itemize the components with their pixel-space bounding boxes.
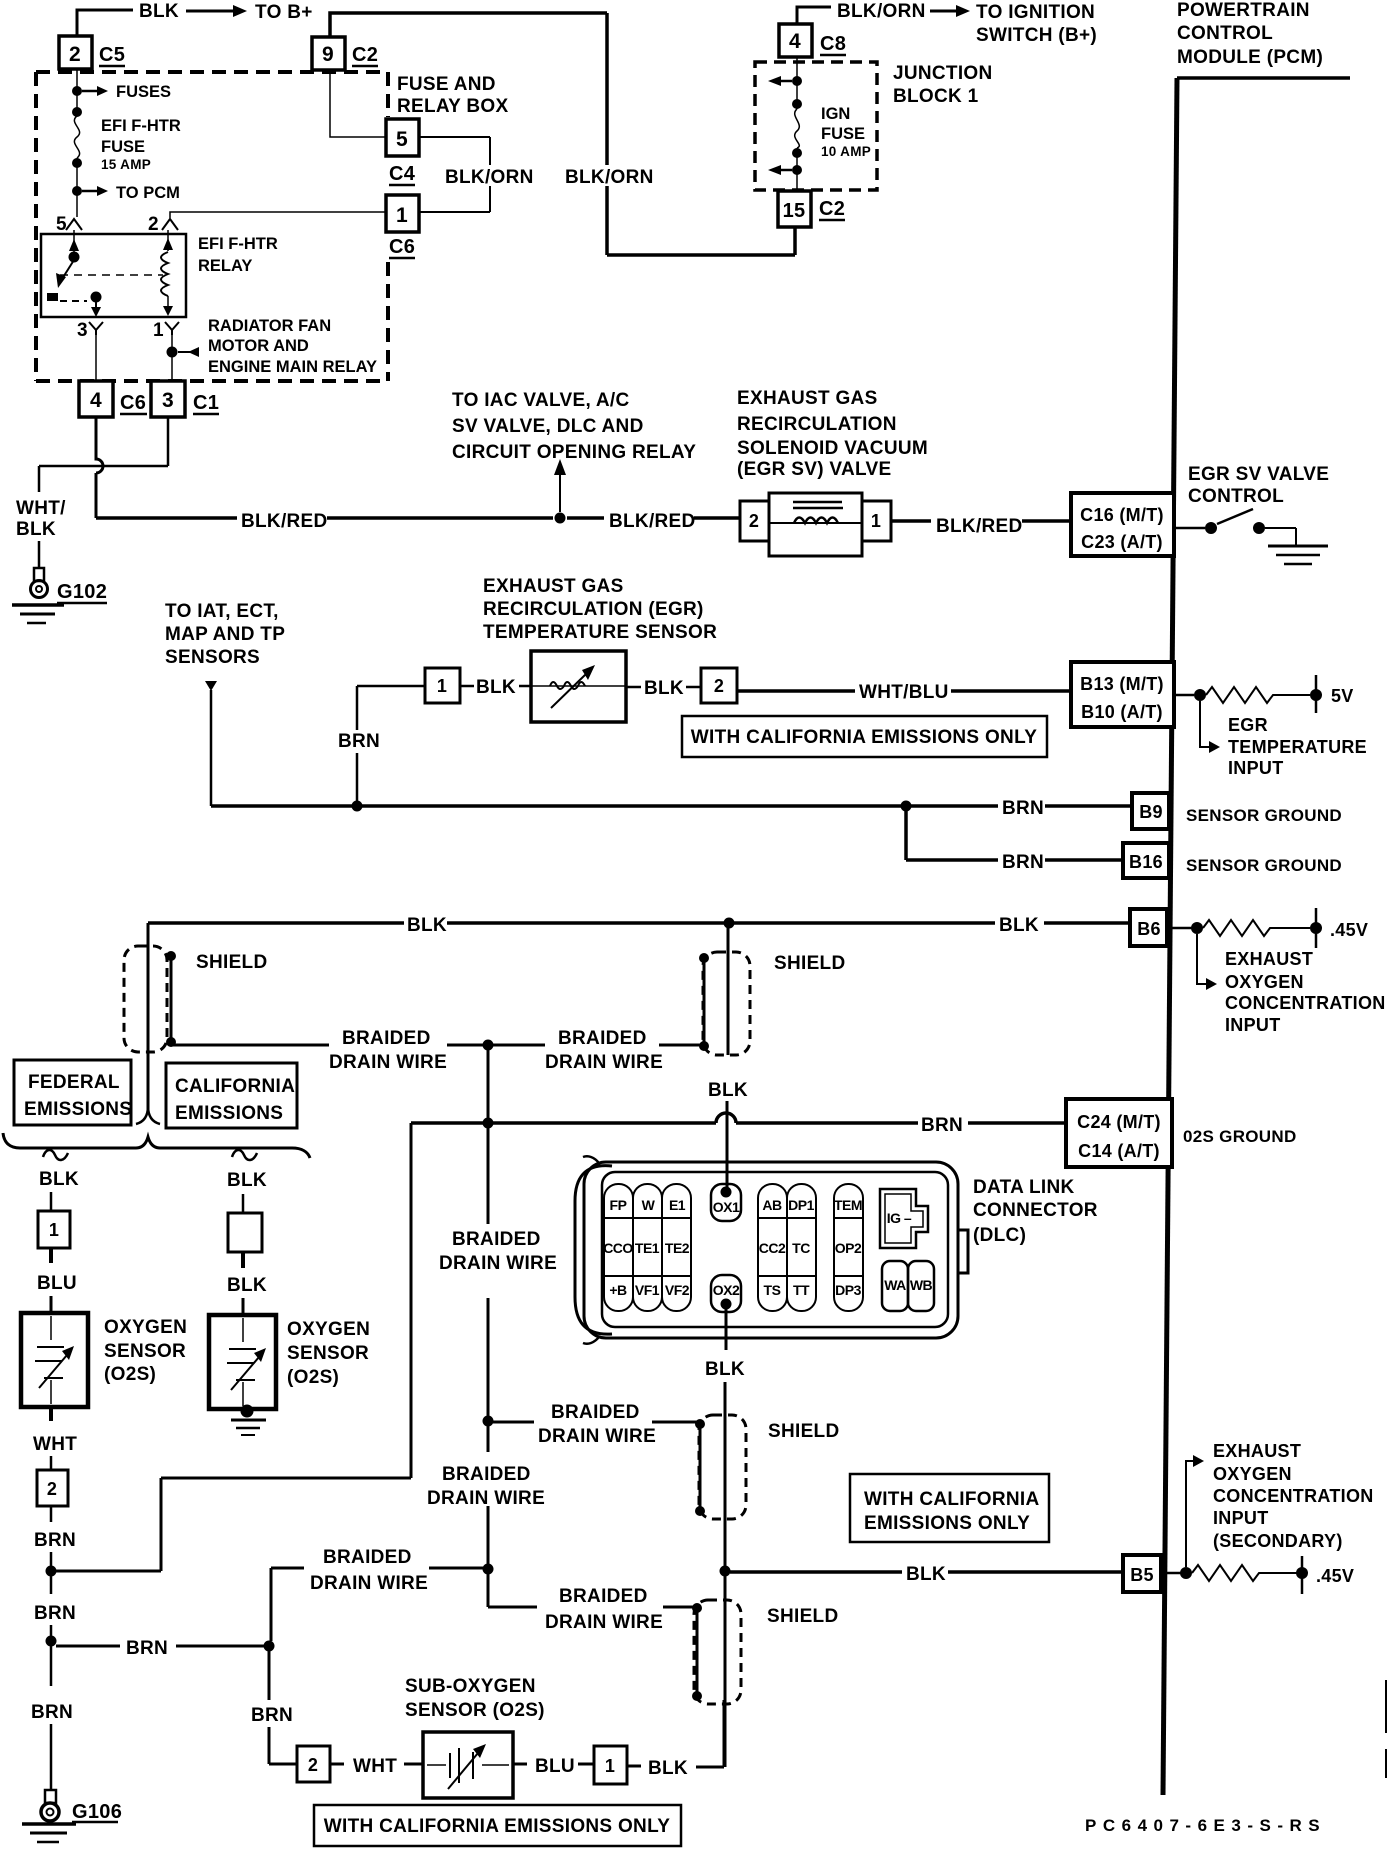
svg-text:OXYGEN: OXYGEN: [1225, 972, 1304, 992]
svg-text:BLK: BLK: [999, 915, 1039, 936]
svg-text:C16 (M/T): C16 (M/T): [1080, 505, 1164, 525]
svg-text:CONCENTRATION: CONCENTRATION: [1213, 1486, 1374, 1506]
wire to CA O2S connector: [242, 1194, 245, 1213]
svg-text:DRAIN WIRE: DRAIN WIRE: [310, 1573, 428, 1594]
arrow to ignition switch: [930, 10, 957, 13]
svg-text:B13 (M/T): B13 (M/T): [1080, 674, 1164, 694]
svg-text:BLK: BLK: [906, 1564, 946, 1585]
svg-text:ENGINE MAIN RELAY: ENGINE MAIN RELAY: [208, 358, 377, 376]
connector B5: [1123, 1555, 1161, 1592]
svg-text:BLK/ORN: BLK/ORN: [445, 167, 534, 188]
svg-text:DRAIN WIRE: DRAIN WIRE: [439, 1253, 557, 1274]
wire BLK to B6: [148, 921, 1132, 925]
svg-text:SHIELD: SHIELD: [196, 952, 267, 973]
oxygen sensor (federal): [21, 1313, 88, 1407]
svg-text:C6: C6: [120, 392, 146, 414]
DLC pin WB: [908, 1261, 934, 1311]
svg-text:C8: C8: [820, 33, 846, 55]
svg-text:E1: E1: [669, 1197, 686, 1213]
svg-text:OP2: OP2: [835, 1240, 862, 1256]
wire braided drain from sub-O2S BRN: [271, 1567, 483, 1570]
sub O2S pin 1: [594, 1746, 627, 1784]
fuse element IGN FUSE 10 AMP: [795, 109, 800, 148]
wire: BRN to sub O2S pin 2: [269, 1651, 297, 1764]
svg-text:BRN: BRN: [338, 731, 380, 752]
sub O2S pin 2: [297, 1746, 330, 1782]
shield 4 drain conductor: [699, 1424, 702, 1511]
oxygen sensor (california): [209, 1315, 276, 1409]
svg-text:.45V: .45V: [1330, 920, 1368, 940]
svg-text:BRN: BRN: [921, 1115, 963, 1136]
svg-text:4: 4: [789, 30, 801, 53]
svg-text:WITH CALIFORNIA EMISSIONS ONLY: WITH CALIFORNIA EMISSIONS ONLY: [691, 727, 1037, 748]
case ground dot (california O2S): [241, 1405, 254, 1418]
arrow EGR temperature input: [1200, 701, 1210, 747]
svg-text:POWERTRAIN: POWERTRAIN: [1177, 0, 1310, 21]
hook into emissions brace: [136, 1106, 160, 1124]
svg-text:(SECONDARY): (SECONDARY): [1213, 1531, 1343, 1551]
wire break squiggle (california): [232, 1150, 257, 1160]
wire: C6-4 down with hop to BLK/RED: [96, 417, 103, 518]
svg-text:OX2: OX2: [713, 1282, 740, 1298]
wire: EGR temp pin1 to BRN net: [357, 686, 425, 801]
wire stub WHT: [330, 1763, 423, 1766]
svg-text:SENSOR (O2S): SENSOR (O2S): [405, 1700, 545, 1721]
svg-text:BRAIDED: BRAIDED: [342, 1028, 431, 1049]
federal emissions box: [14, 1060, 131, 1125]
wire BRN sensor ground bus: [211, 804, 1132, 808]
wire: OX2 down to shields: [725, 1309, 726, 1767]
DLC pin column AB/CC2/TS: [758, 1184, 787, 1311]
wire: BLK shield 2 down to DLC OX1: [727, 923, 728, 1192]
shield 2 (dashed): [703, 952, 750, 1055]
EFI F-HTR relay box: [41, 234, 186, 317]
svg-text:BRN: BRN: [34, 1603, 76, 1624]
wire: relay pin 1 to C1-3: [171, 335, 173, 381]
svg-text:CONTROL: CONTROL: [1188, 486, 1284, 507]
wire to CA O2S: [242, 1298, 245, 1315]
svg-text:WHT/BLU: WHT/BLU: [859, 682, 949, 703]
DLC pin OX2: [711, 1275, 741, 1312]
svg-text:C4: C4: [389, 163, 416, 185]
connector C6 pin 1: [386, 195, 419, 232]
svg-text:VF1: VF1: [635, 1282, 660, 1298]
svg-text:TE1: TE1: [635, 1240, 660, 1256]
arrow to IAT/ECT/MAP/TP sensors: [205, 681, 217, 691]
svg-text:TEMPERATURE SENSOR: TEMPERATURE SENSOR: [483, 622, 717, 643]
.45V pull-up resistor: [1167, 927, 1192, 930]
shield 2 drain conductor: [703, 958, 706, 1046]
svg-text:RELAY BOX: RELAY BOX: [397, 96, 508, 117]
svg-text:BLU: BLU: [535, 1756, 575, 1777]
svg-text:B6: B6: [1137, 919, 1161, 939]
EGR SV valve pin 1: [862, 501, 891, 541]
svg-text:B16: B16: [1129, 852, 1163, 872]
EGR SV valve control switch: [1174, 527, 1205, 530]
svg-text:TO IAT, ECT,: TO IAT, ECT,: [165, 601, 279, 622]
svg-text:INPUT: INPUT: [1225, 1015, 1281, 1035]
svg-text:MAP AND TP: MAP AND TP: [165, 624, 285, 645]
DLC right tab: [958, 1230, 968, 1273]
svg-text:02S GROUND: 02S GROUND: [1183, 1127, 1297, 1146]
svg-text:C14 (A/T): C14 (A/T): [1078, 1141, 1160, 1161]
svg-text:SOLENOID VACUUM: SOLENOID VACUUM: [737, 438, 928, 459]
connector C1 pin 3: [151, 381, 185, 417]
svg-text:INPUT: INPUT: [1213, 1508, 1269, 1528]
wire stub BLK: [460, 685, 531, 688]
shield 5 (dashed): [694, 1600, 741, 1704]
svg-text:EMISSIONS: EMISSIONS: [175, 1103, 283, 1124]
svg-text:B9: B9: [1139, 802, 1163, 822]
wire: braided drain vertical: [487, 1050, 490, 1607]
connector C8 pin 4: [779, 24, 812, 57]
svg-text:(O2S): (O2S): [287, 1367, 339, 1388]
svg-text:BRN: BRN: [31, 1702, 73, 1723]
svg-text:BLK: BLK: [39, 1169, 79, 1190]
svg-text:CONTROL: CONTROL: [1177, 23, 1273, 44]
svg-text:BLK/RED: BLK/RED: [936, 516, 1023, 537]
svg-text:RADIATOR FAN: RADIATOR FAN: [208, 317, 331, 335]
svg-text:OXYGEN: OXYGEN: [104, 1317, 187, 1338]
svg-text:EXHAUST GAS: EXHAUST GAS: [483, 576, 624, 597]
junction dot (left O2S branch): [46, 1566, 57, 1577]
svg-text:5: 5: [396, 128, 408, 151]
svg-text:TC: TC: [792, 1240, 810, 1256]
svg-text:TEMPERATURE: TEMPERATURE: [1228, 737, 1367, 757]
connector B6: [1130, 909, 1167, 946]
wire BRN to C24 with hop over BLK: [411, 1121, 1068, 1125]
EGR SV valve pin 2: [740, 501, 769, 541]
svg-text:TO PCM: TO PCM: [116, 184, 180, 202]
junction dot (drain wire branch): [483, 1040, 494, 1051]
DLC pin column E1/TE2/VF2: [662, 1184, 691, 1311]
page edge artifact: [1385, 1680, 1387, 1778]
arrow left (junction block feed 2): [780, 169, 792, 172]
junction dot: [792, 148, 802, 158]
svg-text:WB: WB: [910, 1277, 933, 1293]
arrow to B+: [186, 10, 234, 13]
.45V pull-up resistor (secondary): [1161, 1572, 1181, 1575]
svg-text:C2: C2: [352, 44, 378, 66]
svg-text:2: 2: [47, 1479, 57, 1499]
svg-text:SHIELD: SHIELD: [767, 1606, 838, 1627]
shield 4 (dashed): [699, 1415, 746, 1519]
wire to O2S connector: [50, 1192, 53, 1211]
svg-text:WA: WA: [884, 1277, 906, 1293]
svg-text:FP: FP: [610, 1197, 627, 1213]
svg-text:TEM: TEM: [834, 1197, 862, 1213]
svg-text:+B: +B: [609, 1282, 627, 1298]
wire stub BLK: [626, 686, 701, 689]
DLC pin column W/TE1/VF1: [633, 1184, 662, 1311]
relay contact jumper (dashed): [60, 300, 87, 302]
wire: sensors branch down: [210, 690, 213, 806]
svg-text:SENSORS: SENSORS: [165, 647, 260, 668]
DLC pin OX1: [711, 1184, 741, 1221]
svg-text:BLK: BLK: [705, 1359, 745, 1380]
svg-text:EXHAUST: EXHAUST: [1225, 949, 1313, 969]
svg-text:BRAIDED: BRAIDED: [559, 1586, 648, 1607]
relay fixed contact pad: [47, 293, 58, 301]
wire: C1-3 down and left (WHT/BLK): [39, 417, 168, 568]
svg-text:SENSOR: SENSOR: [104, 1341, 186, 1362]
svg-text:RECIRCULATION: RECIRCULATION: [737, 414, 897, 435]
svg-text:FEDERAL: FEDERAL: [28, 1072, 120, 1093]
junction dot (radiator fan branch): [167, 347, 178, 358]
svg-text:VF2: VF2: [665, 1282, 690, 1298]
svg-text:BLK/ORN: BLK/ORN: [565, 167, 654, 188]
svg-text:1: 1: [153, 320, 164, 341]
ground G102: [34, 568, 44, 581]
wire BLK/RED: [96, 516, 740, 520]
wire: BLK from C5 pin 2 to B+: [77, 10, 133, 36]
wire inside junction block: [796, 57, 798, 191]
arrow exhaust oxygen concentration input (secondary): [1186, 1461, 1194, 1567]
svg-text:SENSOR GROUND: SENSOR GROUND: [1186, 856, 1342, 875]
svg-text:INPUT: INPUT: [1228, 758, 1284, 778]
wire stub BLU: [513, 1763, 594, 1766]
PCM main vertical line: [1163, 78, 1177, 1795]
ground G106: [45, 1790, 56, 1803]
relay mechanical link (dashed): [60, 274, 163, 276]
svg-text:DATA LINK: DATA LINK: [973, 1177, 1075, 1198]
DLC pin column DP1/TC/TT: [787, 1184, 816, 1311]
arrow from radiator fan relay: [178, 351, 190, 353]
shield 1 drain conductor: [170, 956, 173, 1042]
svg-text:DRAIN WIRE: DRAIN WIRE: [427, 1488, 545, 1509]
wire WHT below O2S: [49, 1407, 53, 1421]
wire to O2S: [50, 1296, 53, 1313]
svg-text:EXHAUST: EXHAUST: [1213, 1441, 1301, 1461]
svg-text:BRN: BRN: [126, 1638, 168, 1659]
svg-text:C23 (A/T): C23 (A/T): [1081, 532, 1163, 552]
svg-text:2: 2: [308, 1755, 318, 1775]
arrow to FUSES: [82, 90, 98, 93]
junction dot (B16 branch): [901, 801, 912, 812]
svg-text:DP1: DP1: [788, 1197, 814, 1213]
svg-text:1: 1: [437, 676, 447, 696]
EGR temp sensor pin 1: [425, 668, 460, 703]
EGR SV valve solenoid: [769, 493, 862, 556]
junction dot: [72, 107, 82, 117]
svg-text:BLU: BLU: [37, 1273, 77, 1294]
junction dot (sub O2S BRN): [264, 1641, 275, 1652]
svg-text:FUSE: FUSE: [821, 125, 865, 143]
DLC IG terminal: [880, 1189, 928, 1248]
svg-text:EGR: EGR: [1228, 715, 1268, 735]
connector C5 pin 2: [59, 36, 92, 69]
svg-text:BRN: BRN: [1002, 852, 1044, 873]
svg-text:EMISSIONS ONLY: EMISSIONS ONLY: [864, 1513, 1030, 1534]
svg-text:RECIRCULATION (EGR): RECIRCULATION (EGR): [483, 599, 704, 620]
junction dot (drain bottom): [483, 1564, 494, 1575]
svg-text:CONCENTRATION: CONCENTRATION: [1225, 993, 1386, 1013]
svg-text:WITH CALIFORNIA: WITH CALIFORNIA: [864, 1489, 1039, 1510]
O2S connector pin 1: [38, 1211, 70, 1248]
junction dot: [792, 165, 802, 175]
junction dot (shield 2 wire): [724, 918, 735, 929]
svg-text:FUSES: FUSES: [116, 83, 171, 101]
svg-text:C5: C5: [99, 44, 125, 66]
svg-text:1: 1: [605, 1756, 615, 1776]
svg-text:15: 15: [783, 200, 806, 222]
svg-text:G102: G102: [57, 581, 107, 603]
wire BRN bottom branch: [56, 1645, 266, 1648]
svg-text:BLK: BLK: [708, 1080, 748, 1101]
svg-text:(EGR SV) VALVE: (EGR SV) VALVE: [737, 459, 891, 480]
PCM top edge: [1177, 76, 1350, 80]
svg-text:CC2: CC2: [759, 1240, 786, 1256]
wire WHT/BLU to B13: [737, 689, 1073, 693]
svg-text:BLOCK 1: BLOCK 1: [893, 86, 979, 107]
relay contact to pin 3 arrow: [95, 302, 97, 308]
svg-text:1: 1: [396, 204, 408, 227]
connector C2 pin 9: [312, 37, 345, 70]
junction dot (sub O2S branch): [46, 1636, 57, 1647]
EGR temp sensor pin 2: [701, 668, 737, 703]
junction dot (B5 BLK): [720, 1566, 731, 1577]
svg-text:1: 1: [871, 511, 881, 531]
svg-text:AB: AB: [762, 1197, 782, 1213]
svg-text:WITH CALIFORNIA EMISSIONS ONLY: WITH CALIFORNIA EMISSIONS ONLY: [324, 1816, 670, 1837]
svg-text:BRAIDED: BRAIDED: [558, 1028, 647, 1049]
wire: relay pin 3 to C6-4: [95, 335, 97, 381]
junction dot (drain to shield 4): [483, 1416, 494, 1427]
svg-text:BLK: BLK: [644, 678, 684, 699]
svg-text:BRN: BRN: [34, 1530, 76, 1551]
wire stub BLK: [627, 1700, 724, 1767]
relay contact junction dot: [91, 292, 102, 303]
svg-text:CONNECTOR: CONNECTOR: [973, 1200, 1098, 1221]
connector B9: [1132, 793, 1169, 829]
connector C16 (M/T) / C23 (A/T): [1071, 493, 1174, 556]
svg-text:SENSOR: SENSOR: [287, 1343, 369, 1364]
svg-text:5: 5: [56, 214, 67, 235]
arrow to IAC valve: [559, 474, 561, 512]
junction dot (BLK/RED branch): [555, 513, 566, 524]
svg-text:10 AMP: 10 AMP: [821, 144, 871, 159]
svg-text:B5: B5: [1130, 1565, 1154, 1585]
svg-text:EFI F-HTR: EFI F-HTR: [101, 117, 181, 135]
fuse element EFI F-HTR FUSE 15 AMP: [74, 116, 79, 158]
svg-text:EGR SV VALVE: EGR SV VALVE: [1188, 464, 1329, 485]
svg-text:OXYGEN: OXYGEN: [1213, 1464, 1292, 1484]
with california emissions only callout box (mid): [850, 1474, 1049, 1542]
DLC pin WA: [882, 1261, 908, 1311]
svg-text:(DLC): (DLC): [973, 1225, 1026, 1246]
relay contact arm: [73, 230, 75, 254]
svg-text:BLK: BLK: [648, 1758, 688, 1779]
svg-text:TO B+: TO B+: [255, 2, 313, 23]
svg-text:BLK/RED: BLK/RED: [609, 511, 696, 532]
arrow to PCM: [82, 190, 98, 193]
svg-text:C2: C2: [819, 198, 845, 220]
svg-text:15 AMP: 15 AMP: [101, 157, 151, 172]
svg-text:BRN: BRN: [1002, 798, 1044, 819]
wire: BLK down through shield 1: [147, 923, 150, 1110]
junction dot: [792, 76, 802, 86]
wire: C2-9 top to BLK/ORN net: [330, 13, 607, 36]
ground (EGR SV valve control): [1268, 545, 1328, 548]
svg-text:FUSE: FUSE: [101, 138, 145, 156]
svg-text:SV VALVE, DLC AND: SV VALVE, DLC AND: [452, 416, 644, 437]
svg-text:BLK: BLK: [227, 1170, 267, 1191]
wire stub from EGR SV pin 1: [891, 519, 931, 523]
EGR temperature sensor: [531, 651, 626, 722]
ground (california O2S): [231, 1419, 266, 1422]
svg-text:RELAY: RELAY: [198, 257, 252, 275]
svg-text:OX1: OX1: [713, 1199, 740, 1215]
svg-text:BLK: BLK: [139, 1, 179, 22]
svg-text:BLK: BLK: [16, 519, 56, 540]
svg-text:4: 4: [90, 389, 102, 412]
with california emissions only callout box: [682, 716, 1047, 757]
wire braided drain (horizontal): [171, 1044, 704, 1047]
svg-text:2: 2: [714, 676, 724, 696]
svg-text:WHT/: WHT/: [16, 498, 66, 519]
wire: C5-2 down to EFI F-HTR fuse: [76, 69, 78, 217]
svg-text:DRAIN WIRE: DRAIN WIRE: [329, 1052, 447, 1073]
data link connector shell: [584, 1162, 958, 1338]
svg-text:TS: TS: [764, 1282, 781, 1298]
arrow left (junction block feed): [780, 80, 792, 83]
relay coil: [167, 230, 169, 251]
svg-text:SHIELD: SHIELD: [774, 953, 845, 974]
svg-text:EFI F-HTR: EFI F-HTR: [198, 235, 278, 253]
svg-text:SWITCH (B+): SWITCH (B+): [976, 25, 1097, 46]
wire BLU: [49, 1248, 53, 1263]
wire braided drain to shield 4: [493, 1421, 700, 1424]
wire BRN chain to G106: [50, 1506, 53, 1790]
junction block 1 (dashed): [755, 62, 877, 190]
fuse and relay box (dashed): [36, 72, 388, 381]
svg-text:EXHAUST GAS: EXHAUST GAS: [737, 388, 878, 409]
svg-text:2: 2: [69, 43, 81, 66]
shield 5 drain conductor: [696, 1608, 699, 1696]
svg-text:EMISSIONS: EMISSIONS: [24, 1099, 132, 1120]
wire: C6-1 to relay pin 2: [170, 212, 388, 218]
svg-text:IG –: IG –: [887, 1210, 912, 1226]
wire break squiggle (federal): [43, 1150, 68, 1160]
svg-text:9: 9: [322, 43, 334, 66]
svg-text:TE2: TE2: [665, 1240, 690, 1256]
svg-text:5V: 5V: [1331, 686, 1354, 706]
connector C24 (M/T) / C14 (A/T): [1066, 1099, 1172, 1167]
sub-oxygen sensor: [423, 1732, 513, 1798]
junction dot: [72, 158, 82, 168]
junction dot: [72, 86, 82, 96]
svg-text:BRAIDED: BRAIDED: [323, 1547, 412, 1568]
svg-text:(O2S): (O2S): [104, 1364, 156, 1385]
svg-text:TO IAC VALVE, A/C: TO IAC VALVE, A/C: [452, 390, 630, 411]
connector C4 pin 5: [386, 119, 419, 156]
5V pull-up resistor: [1172, 694, 1194, 697]
svg-text:DP3: DP3: [835, 1282, 861, 1298]
DLC left cap: [575, 1166, 612, 1335]
svg-text:WHT: WHT: [353, 1756, 397, 1777]
connector B16: [1123, 843, 1169, 878]
DLC pin column TEM/OP2/DP3: [834, 1184, 863, 1311]
junction dot: [792, 99, 802, 109]
svg-text:WHT: WHT: [33, 1434, 77, 1455]
svg-text:MODULE (PCM): MODULE (PCM): [1177, 47, 1323, 68]
svg-text:BRN: BRN: [251, 1705, 293, 1726]
svg-text:MOTOR AND: MOTOR AND: [208, 337, 309, 355]
wire BLK/ORN vertical to junction block: [607, 13, 795, 255]
svg-text:BLK: BLK: [476, 677, 516, 698]
svg-text:2: 2: [148, 214, 159, 235]
svg-text:B10 (A/T): B10 (A/T): [1081, 702, 1163, 722]
